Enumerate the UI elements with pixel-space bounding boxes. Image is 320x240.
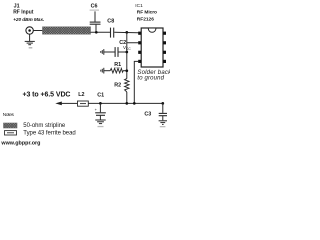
node stripline/C6 <box>95 31 98 34</box>
wire J1 to ground <box>29 34 31 41</box>
svg-text:www.gbppr.org: www.gbppr.org <box>0 140 40 146</box>
resistor R2 (vertical) <box>125 79 129 92</box>
svg-text:VCC: VCC <box>123 45 131 51</box>
svg-text:50-ohm stripline: 50-ohm stripline <box>23 123 66 129</box>
node R1/bias <box>125 69 128 72</box>
node bias/rail <box>125 102 128 105</box>
RF wire stripline to C8 <box>91 31 111 33</box>
supply rail right of L2 <box>88 102 163 104</box>
gray value smudge under C3 <box>160 126 166 127</box>
svg-text:Notes: Notes <box>3 112 15 118</box>
svg-text:RF Input: RF Input <box>13 10 34 16</box>
svg-text:C3: C3 <box>144 112 151 118</box>
svg-text:L2: L2 <box>78 92 84 98</box>
svg-text:C8: C8 <box>107 18 114 24</box>
node C1 <box>99 102 102 105</box>
supply arrow <box>55 102 62 106</box>
node C3 <box>161 102 164 105</box>
IC pins left <box>138 32 141 63</box>
ground C1 <box>95 120 105 124</box>
svg-text:R1: R1 <box>114 62 121 68</box>
svg-text:to ground: to ground <box>137 76 164 82</box>
ground (sideways) for R1 <box>101 68 104 74</box>
connector J1 <box>26 27 33 34</box>
legend stripline swatch <box>4 123 18 128</box>
wire node to pin2 <box>127 32 139 42</box>
svg-text:RF2126: RF2126 <box>137 17 154 23</box>
gray value smudge under C1 <box>98 126 104 127</box>
inductor L2 ferrite bead <box>78 101 89 106</box>
svg-text:C1: C1 <box>97 93 104 99</box>
op-amp/IC U1 body <box>141 28 163 67</box>
svg-text:+3 to +6.5 VDC: +3 to +6.5 VDC <box>23 91 71 98</box>
wire J1 to stripline <box>33 30 42 32</box>
node RF/bias <box>125 31 128 34</box>
RF wire C8 to IC pin1 <box>114 31 138 34</box>
svg-text:J1: J1 <box>14 3 20 9</box>
supply rail <box>62 102 78 104</box>
capacitor C1 <box>99 103 101 112</box>
bias line x=126.8 down <box>126 43 128 79</box>
gray value smudge C6 <box>90 10 99 11</box>
capacitor C8 <box>110 28 112 38</box>
capacitor C6 <box>94 11 96 21</box>
svg-text:Type 43 ferrite bead: Type 43 ferrite bead <box>23 131 75 137</box>
svg-text:+20 dBm Max.: +20 dBm Max. <box>13 17 44 23</box>
gray smudge under J1 ground <box>29 47 33 48</box>
svg-text:C6: C6 <box>91 3 98 9</box>
ground J1 <box>25 41 35 44</box>
svg-text:IC1: IC1 <box>135 3 143 9</box>
svg-text:RF Micro: RF Micro <box>137 10 157 16</box>
svg-text:R2: R2 <box>114 82 121 88</box>
IC notch <box>148 29 156 33</box>
ground (sideways) for C2 <box>101 49 104 55</box>
node pin4/rail <box>133 102 136 105</box>
svg-text:+: + <box>95 107 98 112</box>
resistor R1 <box>104 70 110 72</box>
wire pin4 to rail <box>134 61 138 103</box>
capacitor C2 <box>104 51 115 53</box>
IC pins right <box>163 32 166 63</box>
node C2/bias <box>125 51 128 54</box>
ground C3 <box>159 121 167 125</box>
capacitor C3 <box>162 103 164 113</box>
stripline (50-ohm hatched bar) <box>43 27 91 34</box>
gray value smudge R1 <box>114 67 120 68</box>
legend ferrite bead swatch <box>5 131 17 135</box>
